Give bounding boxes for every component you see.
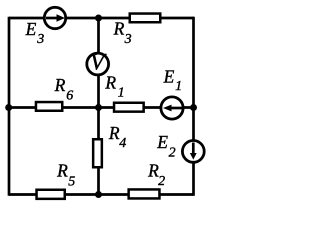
node bottom middle — [95, 191, 102, 198]
svg-text:3: 3 — [124, 32, 132, 47]
label R3 — [113, 18, 132, 46]
svg-text:R: R — [54, 75, 66, 95]
node middle center — [95, 104, 102, 111]
voltmeter V — [87, 49, 109, 75]
svg-text:1: 1 — [175, 79, 182, 94]
label E2 — [156, 132, 175, 160]
svg-text:5: 5 — [68, 174, 75, 189]
resistor R6 — [36, 102, 62, 111]
resistor R2 — [129, 189, 160, 198]
svg-text:2: 2 — [158, 174, 165, 189]
svg-text:4: 4 — [119, 136, 126, 151]
resistor R5 — [37, 190, 65, 199]
resistor R3 — [130, 14, 161, 23]
resistor R1 — [114, 103, 144, 112]
svg-text:6: 6 — [66, 88, 73, 103]
svg-text:R: R — [113, 18, 125, 38]
source E2 — [182, 141, 204, 163]
svg-text:E: E — [163, 66, 175, 86]
wire middle vertical — [97, 18, 100, 195]
label R2 — [147, 161, 165, 189]
svg-text:E: E — [156, 132, 168, 152]
label R4 — [108, 123, 126, 151]
label R6 — [54, 75, 74, 103]
wire right — [192, 17, 195, 196]
svg-text:R: R — [108, 123, 120, 143]
wire bottom — [9, 193, 194, 196]
label R5 — [56, 161, 75, 190]
node top middle — [95, 15, 102, 22]
label E1 — [163, 66, 183, 94]
label R1 — [104, 73, 124, 101]
svg-text:R: R — [56, 161, 68, 181]
label E3 — [25, 19, 45, 47]
node middle right — [190, 104, 197, 111]
wire top — [9, 17, 194, 20]
svg-text:R: R — [104, 73, 116, 93]
svg-text:2: 2 — [169, 145, 176, 160]
svg-text:3: 3 — [36, 32, 44, 47]
resistor R4 — [93, 139, 102, 167]
wire left — [8, 17, 11, 196]
svg-text:E: E — [25, 19, 37, 39]
source E3 — [44, 7, 65, 28]
svg-text:1: 1 — [118, 85, 125, 100]
node middle left — [5, 104, 12, 111]
wire middle horizontal — [9, 106, 194, 109]
source E1 — [161, 97, 183, 119]
